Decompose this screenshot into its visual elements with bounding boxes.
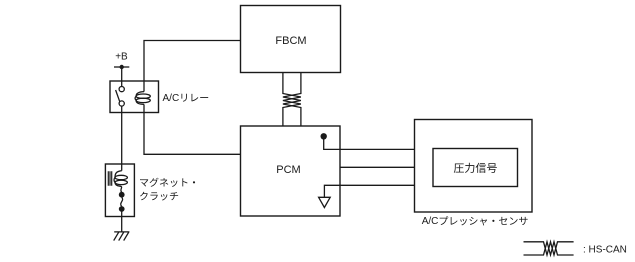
wire magnet clutch to ground	[121, 211, 123, 232]
wire relay coil to PCM	[144, 104, 241, 154]
relay switch contact circles	[119, 87, 124, 92]
svg-text:: HS-CAN: : HS-CAN	[583, 245, 627, 256]
magnet clutch coil core bars	[108, 171, 111, 185]
pressure signal inner box	[433, 149, 518, 187]
wire +B to relay switch	[121, 67, 123, 87]
magnet clutch contact dot lower	[119, 206, 125, 212]
HS-CAN twisted pair wire FBCM to PCM (line A)	[283, 73, 301, 127]
+B node dot	[120, 65, 124, 69]
A/C pressure sensor outer box	[415, 120, 533, 213]
HS-CAN twisted pair wire FBCM to PCM (line B)	[283, 73, 301, 127]
svg-text:+B: +B	[115, 52, 128, 63]
wire PCM signal to sensor	[340, 166, 415, 168]
wire FBCM to relay coil	[144, 41, 241, 92]
wire PCM supply to sensor	[324, 136, 415, 149]
HS-CAN legend twisted pair (line A)	[524, 242, 574, 255]
PCM ground triangle	[319, 197, 331, 207]
relay coil L	[136, 92, 144, 97]
module FBCM (box)	[241, 6, 341, 73]
magnet clutch contact dot upper	[119, 192, 125, 198]
label 圧力信号 (pressure signal)	[454, 163, 497, 173]
module PCM (box)	[241, 126, 341, 216]
svg-text:A/C: A/C	[422, 216, 439, 227]
svg-text:PCM: PCM	[276, 164, 300, 176]
magnet clutch box	[105, 164, 134, 217]
PCM supply node dot	[321, 133, 327, 139]
+B node bar	[114, 66, 129, 68]
magnet clutch coil loops	[115, 171, 122, 178]
magnet clutch squiggle wire	[121, 197, 123, 206]
label マグネット・クラッチ (magnet clutch)	[140, 178, 195, 187]
wire PCM ground to sensor	[324, 185, 414, 197]
HS-CAN legend twisted pair (line B)	[524, 242, 574, 255]
relay switch blade	[116, 90, 120, 102]
wire relay switch to magnet clutch	[121, 106, 123, 171]
ground symbol	[114, 232, 130, 241]
svg-text:A/C: A/C	[163, 93, 180, 104]
svg-text:FBCM: FBCM	[275, 35, 306, 47]
relay box A/C relay	[110, 81, 159, 113]
